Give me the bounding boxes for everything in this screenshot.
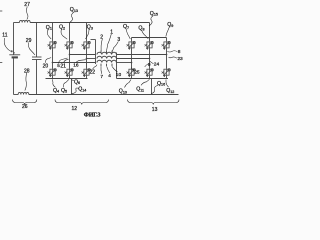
svg-text:7: 7 [100,74,103,80]
edge mark mid [0,62,2,64]
svg-text:24: 24 [154,61,160,67]
wire feeder vertical [149,23,151,38]
svg-text:1: 1 [110,29,113,35]
wire bus phase c left [53,62,96,64]
leader Q9 [166,27,170,37]
transistor Q12 [162,69,171,77]
transistor Q1 [48,41,57,49]
leader Q14 [72,88,79,94]
node leg x86.5 [86,58,88,60]
leader 16 [76,60,86,63]
leader 20 [46,58,51,63]
leader Q13 [70,12,75,23]
node right leg x166.5 [166,54,168,56]
leader 9 [145,64,149,67]
leader 23 [169,57,178,58]
wire right bridge drop to rail [151,79,153,95]
wire sub rail right [132,37,167,39]
wire bottom rail left [14,94,19,96]
leader Q12 [166,80,169,88]
transistor Q8 [145,41,154,49]
wire right leg x131.5 to lower switch [131,63,133,69]
wire gate jog [91,39,96,41]
wire bus phase b right [117,58,150,60]
transistor Q6 [82,69,91,77]
leader Q16 [151,85,158,94]
wire right leg x149.5 top lead [149,38,151,42]
transistor Q5 [65,69,74,77]
leader Q8 [142,30,149,39]
wire bottom bus left [46,78,88,80]
transistor Q2 [65,41,74,49]
svg-text:26: 26 [22,104,28,110]
wire leg x86.5 top lead [86,23,88,42]
transistor Q10 [127,69,136,77]
node right leg x149.5 [149,58,151,60]
wire capacitor to bottom rail [36,60,38,95]
motor winding row 1 [97,52,116,54]
wire right leg x131.5 top lead [131,38,133,42]
wire bus phase a left [70,54,96,56]
leader 28 [25,73,27,91]
leader Q3 [86,29,90,39]
transistor Q3 [82,41,91,49]
svg-text:23: 23 [177,56,183,62]
svg-text:11: 11 [2,33,7,39]
leader 7 [100,67,103,74]
leader 8 [167,51,177,52]
wire right leg x166.5 to lower switch [166,55,168,69]
wire bus phase b left [87,58,96,60]
svg-text:8: 8 [178,49,181,55]
leader Q2 [61,29,67,39]
svg-text:9: 9 [148,62,151,68]
inductor 27 [20,20,31,22]
wire leg x69.5 lower lead [69,76,71,79]
wire leg x52.5 mid [52,49,54,63]
wire right leg x166.5 top lead [166,38,168,42]
wire leg x69.5 mid [69,49,71,55]
leader 11 [4,38,11,52]
leader 24 [150,61,154,64]
wire leg x52.5 top lead [52,23,54,42]
leader Q6b [72,80,74,81]
wire right leg x149.5 lower lead [149,76,151,79]
svg-text:27: 27 [24,2,30,8]
leader 1 [107,34,112,51]
wire leg x86.5 mid [86,49,88,59]
wire right leg x131.5 mid [131,49,133,63]
edge mark top [0,10,2,12]
winding tap stubs top [101,51,112,54]
svg-text:4: 4 [108,73,111,79]
wire top rail left segment [14,22,20,24]
leader Q1 [47,30,51,40]
brace 12 [55,100,109,105]
leader Q15 [149,16,154,27]
leader 25 [131,68,134,71]
leader 22 [93,65,98,70]
svg-text:ФИГ.3: ФИГ.3 [84,113,101,119]
wire left bridge drop to rail [71,79,73,95]
leader Q10 [125,80,132,88]
leader 29 [28,43,35,56]
winding block left edge [95,40,97,65]
transistor Q9 [162,41,171,49]
leader 2 [101,39,102,51]
svg-text:16: 16 [73,62,79,68]
svg-text:10: 10 [116,72,122,78]
svg-text:13: 13 [152,107,158,113]
wire leg x86.5 to lower switch [86,59,88,69]
leader 4 [107,67,110,73]
svg-text:21: 21 [60,63,66,69]
node leg x69.5 [69,54,71,56]
motor winding row 2 [97,56,116,58]
leader Q7 [126,29,130,40]
wire right leg x131.5 lower lead [131,76,133,79]
wire top rail [30,22,149,24]
wire leg x52.5 lower lead [52,76,54,79]
brace 13 [128,100,180,105]
wire right leg x166.5 mid [166,49,168,55]
wire leg x69.5 to lower switch [69,55,71,69]
svg-text:29: 29 [26,38,32,44]
wire bus phase a right [117,54,167,56]
wire left vertical to battery [13,23,15,55]
svg-text:20: 20 [43,63,49,69]
winding block right edge [116,53,118,79]
transistor Q4 [48,69,57,77]
svg-text:2: 2 [100,35,103,41]
svg-text:25: 25 [134,69,140,75]
leader 5 [59,58,68,64]
motor winding row 3 [97,60,116,62]
wire bottom bus right [117,78,169,80]
leader 27 [27,7,28,20]
inductor 28 [18,92,29,94]
node right leg x131.5 [131,62,133,64]
leader 10 [112,67,117,72]
svg-text:22: 22 [90,70,96,76]
wire bus phase c right [117,62,132,64]
wire right leg x166.5 lower lead [166,76,168,79]
brace 26 [13,100,37,105]
wire right leg x149.5 mid [149,49,151,59]
svg-text:28: 28 [24,68,30,74]
capacitor 29 [32,56,42,58]
transistor Q11 [145,69,154,77]
winding tap stubs bottom [101,64,112,67]
leader Q4 [52,79,55,87]
leader Q5 [63,79,69,87]
leader 21 [64,59,69,63]
svg-text:12: 12 [72,106,78,112]
transistor Q7 [127,41,136,49]
wire battery to bottom rail [13,58,15,94]
wire leg x69.5 top lead [69,23,71,42]
leader Q11 [141,79,150,85]
node leg x52.5 [52,62,54,64]
battery 11 [9,54,20,56]
svg-text:3: 3 [117,37,120,43]
wire leg x86.5 lower lead [86,76,88,79]
wire leg x52.5 to lower switch [52,63,54,69]
wire capacitor drop [36,23,38,58]
wire bottom rail [29,94,179,96]
leader 3 [112,42,118,52]
wire right leg x149.5 to lower switch [149,59,151,69]
